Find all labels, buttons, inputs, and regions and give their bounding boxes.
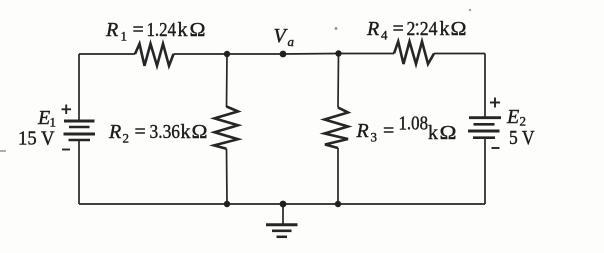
resistor R2 bbox=[214, 107, 238, 149]
svg-text:1.08: 1.08 bbox=[399, 113, 429, 135]
svg-text:2: 2 bbox=[123, 131, 130, 146]
svg-text:Ω: Ω bbox=[451, 18, 467, 40]
svg-text:2.24: 2.24 bbox=[407, 18, 438, 40]
node dot bottom at R3 branch bbox=[335, 201, 341, 207]
battery E1 bbox=[64, 121, 96, 140]
svg-text:V: V bbox=[274, 25, 289, 47]
svg-text:k: k bbox=[440, 18, 450, 40]
wire R1 to node at R2 branch bbox=[174, 53, 228, 55]
wire E2 bottom to bottom-right corner bbox=[484, 138, 486, 204]
svg-text:k: k bbox=[178, 19, 188, 41]
wire E1 bottom to bottom-left corner bbox=[78, 140, 80, 204]
wire R3 bottom bbox=[337, 148, 339, 204]
stray mark left edge bbox=[0, 150, 6, 152]
label E2 bbox=[506, 106, 526, 129]
resistor R1 bbox=[135, 44, 174, 66]
svg-text:R: R bbox=[105, 19, 118, 41]
node dot bottom at ground bbox=[280, 201, 287, 208]
ground bbox=[266, 225, 298, 237]
svg-text:R: R bbox=[108, 121, 121, 143]
svg-text:15 V: 15 V bbox=[18, 128, 55, 150]
svg-text:4: 4 bbox=[381, 28, 388, 43]
svg-text:Ω: Ω bbox=[192, 121, 208, 143]
node dot top at R2 branch bbox=[224, 51, 230, 57]
wire bottom horizontal bbox=[79, 203, 485, 205]
node dot bottom at R2 branch bbox=[224, 201, 230, 207]
svg-text:Ω: Ω bbox=[440, 122, 457, 144]
plus sign E1 bbox=[62, 105, 72, 115]
wire R2 bottom bbox=[226, 149, 229, 204]
svg-text:=: = bbox=[133, 19, 144, 41]
svg-text:R: R bbox=[356, 120, 369, 142]
resistor R4 bbox=[394, 42, 434, 65]
battery E2 bbox=[468, 118, 501, 138]
node dot top at R3 branch bbox=[335, 50, 341, 56]
svg-text:k: k bbox=[181, 121, 191, 143]
wire top-left horizontal (E1 top to R1) bbox=[79, 53, 135, 55]
wire node R3 to R4 bbox=[339, 53, 395, 55]
label R3 value bbox=[356, 113, 457, 145]
wire ground stub bbox=[282, 204, 284, 225]
label R4 value bbox=[366, 18, 467, 43]
plus sign E2 bbox=[490, 98, 500, 108]
wire R3 branch top bbox=[337, 54, 340, 108]
wire R2 branch top bbox=[226, 54, 229, 107]
svg-text:E: E bbox=[37, 107, 50, 129]
wire R4 to top-right corner bbox=[434, 53, 485, 55]
svg-text:E: E bbox=[506, 106, 519, 128]
label R1 value bbox=[105, 19, 206, 44]
wire right vertical top (corner to E2) bbox=[484, 54, 486, 118]
minus sign E2 bbox=[492, 147, 500, 149]
label node Va bbox=[274, 25, 295, 49]
svg-text:=: = bbox=[383, 120, 394, 142]
colon speck in 2.24 bbox=[416, 23, 419, 26]
wire node R2 to node Va bbox=[227, 53, 283, 55]
svg-text:3.36: 3.36 bbox=[150, 121, 181, 143]
svg-text:5 V: 5 V bbox=[509, 127, 535, 149]
speck near Va bbox=[335, 27, 338, 30]
label E1 bbox=[37, 107, 56, 130]
svg-text:=: = bbox=[135, 121, 146, 143]
wire node Va to node R3 bbox=[283, 53, 339, 56]
svg-text:1: 1 bbox=[121, 29, 128, 44]
svg-text:1.24: 1.24 bbox=[147, 19, 177, 41]
label R2 value bbox=[108, 121, 208, 146]
wire left vertical E1 top bbox=[78, 54, 80, 121]
svg-text:=: = bbox=[393, 18, 404, 40]
svg-text:R: R bbox=[366, 18, 379, 40]
resistor R3 bbox=[325, 108, 349, 149]
svg-text:3: 3 bbox=[371, 130, 378, 145]
svg-text:k: k bbox=[428, 122, 438, 144]
minus sign E1 bbox=[62, 149, 70, 151]
speck above R4 label bbox=[469, 9, 471, 11]
svg-text:Ω: Ω bbox=[190, 19, 206, 41]
node Va dot bbox=[280, 51, 287, 58]
svg-text:a: a bbox=[288, 34, 295, 49]
